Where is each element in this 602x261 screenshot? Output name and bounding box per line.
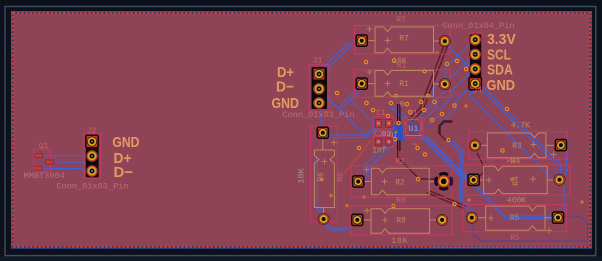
via bbox=[396, 121, 401, 126]
wire J1 pin2 down-right bbox=[321, 91, 367, 138]
svg-text:0: 0 bbox=[400, 100, 405, 109]
wire red F.Cu near R6 bbox=[344, 141, 371, 175]
svg-text:R3: R3 bbox=[512, 142, 522, 151]
wire R7 right to R4 right via vertical bbox=[447, 45, 552, 178]
via bbox=[464, 104, 467, 107]
svg-text:R1: R1 bbox=[397, 61, 407, 70]
via bbox=[423, 152, 428, 157]
wire bottom edge B.Cu bbox=[430, 246, 576, 248]
svg-text:10K: 10K bbox=[391, 237, 408, 246]
resistor R8 bbox=[351, 197, 452, 247]
svg-text:R6: R6 bbox=[317, 172, 326, 182]
svg-text:R8: R8 bbox=[396, 197, 406, 206]
via bbox=[392, 58, 397, 63]
zone patch B.Cu near U1 bbox=[393, 125, 406, 141]
via bbox=[455, 59, 460, 64]
via bbox=[415, 146, 420, 151]
wire U1 to R5 left horizontal pair bbox=[424, 137, 553, 219]
svg-text:C1: C1 bbox=[376, 109, 386, 118]
via bbox=[362, 195, 365, 198]
via bbox=[430, 118, 435, 123]
wire dark elbow near R3 left bbox=[440, 122, 453, 140]
wire bundle J4 to U1 bbox=[359, 42, 472, 183]
via bbox=[320, 177, 323, 180]
svg-text:D−: D− bbox=[276, 79, 294, 96]
via bbox=[335, 91, 340, 96]
wire Q1 to J2 traces bbox=[42, 156, 89, 171]
svg-text:3.3V: 3.3V bbox=[487, 31, 516, 48]
wire U1 to R4 left bbox=[390, 104, 471, 179]
via bbox=[505, 107, 510, 112]
via bbox=[580, 200, 583, 203]
svg-text:U1: U1 bbox=[408, 124, 418, 134]
svg-text:nf: nf bbox=[389, 130, 399, 139]
via bbox=[445, 62, 450, 67]
wire via to R5 left vertical pair bbox=[449, 139, 474, 213]
via bbox=[371, 108, 376, 113]
svg-text:4.7K: 4.7K bbox=[511, 122, 530, 131]
wire dark R8 to R5 area bbox=[427, 191, 467, 209]
via bbox=[422, 69, 427, 74]
resistor R4 bbox=[466, 165, 571, 206]
svg-text:R5: R5 bbox=[510, 234, 520, 243]
via bbox=[405, 102, 410, 107]
svg-text:GND: GND bbox=[112, 134, 139, 151]
via bbox=[394, 94, 399, 99]
wire R6 top to C1 area bbox=[328, 123, 380, 138]
via bbox=[467, 198, 470, 201]
resistor R5 bbox=[463, 205, 566, 243]
via bbox=[452, 103, 457, 108]
svg-text:R5: R5 bbox=[510, 214, 520, 223]
svg-text:~: ~ bbox=[413, 141, 418, 150]
via bbox=[464, 67, 469, 72]
via bbox=[391, 204, 396, 209]
svg-text:R4: R4 bbox=[512, 176, 521, 186]
svg-text:R1: R1 bbox=[399, 80, 409, 89]
via bbox=[357, 146, 362, 151]
svg-text:Conn_01x04_Pin: Conn_01x04_Pin bbox=[442, 21, 514, 31]
capacitor C1 bbox=[373, 109, 393, 129]
via bbox=[510, 178, 513, 181]
via bbox=[345, 204, 348, 207]
wire R6 bottom to R8 left bbox=[323, 222, 357, 231]
via bbox=[389, 101, 394, 106]
via bbox=[500, 148, 505, 153]
svg-text:Conn_01x03_Pin: Conn_01x03_Pin bbox=[56, 181, 128, 191]
via bbox=[446, 138, 451, 143]
resistor R3 bbox=[469, 122, 567, 167]
capacitor C2 bbox=[372, 130, 398, 156]
via bbox=[440, 112, 445, 117]
via bbox=[364, 60, 369, 65]
svg-text:1nf: 1nf bbox=[372, 147, 387, 156]
svg-text:GND: GND bbox=[487, 77, 516, 94]
resistor R1 bbox=[355, 61, 451, 109]
svg-text:MMBT3904: MMBT3904 bbox=[24, 171, 65, 181]
connector J2 bbox=[56, 127, 128, 191]
via bbox=[393, 137, 398, 142]
wire left vertical pair near R6 bbox=[315, 158, 325, 215]
svg-text:D−: D− bbox=[114, 164, 134, 181]
svg-text:GND: GND bbox=[272, 95, 300, 112]
wire R1 left pad down-left bbox=[341, 86, 377, 126]
svg-text:400K: 400K bbox=[507, 196, 526, 205]
connector J1 bbox=[282, 56, 354, 120]
resistor R2 bbox=[351, 158, 453, 198]
via bbox=[422, 108, 427, 113]
svg-text:J2: J2 bbox=[87, 127, 97, 136]
svg-text:10K: 10K bbox=[297, 167, 307, 183]
via bbox=[364, 101, 369, 106]
wire dark R7 right downward bbox=[409, 44, 448, 121]
wire J1 pin1 to R7 left bbox=[320, 43, 360, 74]
resistor R6 bbox=[297, 126, 346, 225]
via bbox=[386, 114, 391, 119]
wire R4 right to R5 right bbox=[559, 181, 565, 217]
via bbox=[408, 110, 413, 115]
wire purple bottom right bbox=[473, 217, 588, 241]
via bbox=[416, 177, 421, 182]
svg-text:R2: R2 bbox=[395, 158, 405, 167]
via bbox=[426, 94, 431, 99]
svg-text:R6: R6 bbox=[337, 172, 346, 182]
wire J1 pin3 to R6 top bbox=[320, 106, 323, 129]
via bbox=[419, 100, 424, 105]
via bbox=[435, 51, 438, 54]
via bbox=[432, 100, 437, 105]
wire R3 right to R4 right bbox=[561, 147, 567, 180]
svg-text:J1: J1 bbox=[313, 56, 323, 65]
svg-text:R2: R2 bbox=[395, 178, 405, 187]
connector J4 bbox=[442, 21, 514, 95]
resistor R7 bbox=[355, 16, 451, 66]
svg-text:J4: J4 bbox=[472, 87, 482, 96]
wire dark vertical near U1 bbox=[398, 104, 441, 179]
wire J4 GND to R4 right bbox=[478, 85, 561, 179]
IC U1 bbox=[404, 109, 423, 150]
svg-text:Q1: Q1 bbox=[39, 142, 49, 151]
transistor Q1 bbox=[24, 142, 65, 181]
svg-text:R7: R7 bbox=[399, 34, 409, 43]
via bbox=[452, 202, 457, 207]
wire dark R4 left elbow bbox=[477, 153, 484, 179]
svg-text:R8: R8 bbox=[396, 216, 406, 225]
svg-text:U1: U1 bbox=[408, 109, 418, 118]
svg-text:R7: R7 bbox=[396, 16, 406, 25]
via bbox=[329, 194, 332, 197]
